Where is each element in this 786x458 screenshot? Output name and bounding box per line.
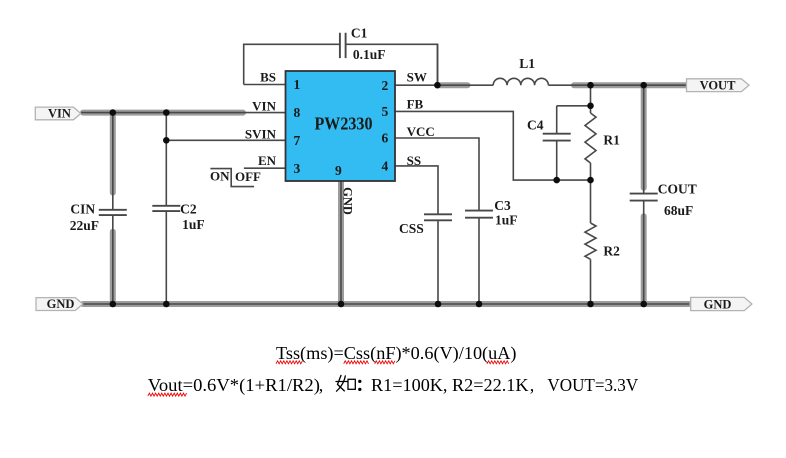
node formula Vout part1 xyxy=(148,375,323,396)
svg-text:EN: EN xyxy=(258,153,277,168)
svg-text:L1: L1 xyxy=(519,56,535,71)
junction GND-C2 xyxy=(163,301,170,308)
node formula colon xyxy=(358,380,361,391)
svg-text:Vout=0.6V*(1+R1/R2): Vout=0.6V*(1+R1/R2) xyxy=(148,375,320,396)
wire SW to C1 stub xyxy=(436,44,438,85)
junction GND-pin9 xyxy=(338,301,345,308)
resistor R1 xyxy=(585,113,620,163)
wire R2 upper lead xyxy=(590,180,592,223)
capacitor COUT 68uF xyxy=(630,181,697,218)
node SS label xyxy=(407,153,421,168)
pin 2 xyxy=(382,78,389,93)
node SVIN label xyxy=(245,126,277,141)
wire C2 lower lead xyxy=(165,211,167,304)
svg-text:SW: SW xyxy=(407,70,427,85)
svg-text:C1: C1 xyxy=(351,25,368,40)
capacitor CSS xyxy=(399,214,452,236)
svg-text:GND: GND xyxy=(341,187,355,215)
wire CIN branch thick trace lower xyxy=(110,232,116,304)
junction GND-CIN xyxy=(110,301,117,308)
junction VIN-CIN xyxy=(110,109,117,116)
capacitor C2 1uF xyxy=(152,201,204,232)
junction SW-C1 xyxy=(434,82,441,89)
wire COUT lower lead xyxy=(643,201,645,304)
svg-text:C2: C2 xyxy=(180,201,197,216)
node SW label xyxy=(407,70,427,85)
node formula Chinese ru glyph xyxy=(336,375,355,391)
op-amp U1 PW2330 regulator IC xyxy=(286,71,396,181)
node spellcheck squiggle Css xyxy=(344,361,369,364)
junction FB-C4 xyxy=(553,177,560,184)
node GND terminal xyxy=(691,297,752,311)
junction GND-C3 xyxy=(476,301,483,308)
svg-text:BS: BS xyxy=(260,70,276,85)
node BS label xyxy=(260,70,276,85)
wire SVIN pin xyxy=(166,139,285,141)
svg-text:GND: GND xyxy=(704,297,732,311)
svg-text:22uF: 22uF xyxy=(70,218,99,233)
svg-text:PW2330: PW2330 xyxy=(315,114,373,134)
wire VCC to C3 xyxy=(395,138,479,211)
wire R1 upper lead xyxy=(590,85,592,113)
wire GND rail xyxy=(81,303,689,305)
wire R1 lower lead xyxy=(590,163,592,180)
svg-text:5: 5 xyxy=(382,104,389,119)
pin 1 xyxy=(294,77,301,92)
svg-text:FB: FB xyxy=(407,96,424,111)
svg-text:VIN: VIN xyxy=(48,107,71,121)
wire C4 top link xyxy=(557,105,591,107)
svg-text:68uF: 68uF xyxy=(664,203,693,218)
wire BS to C1 left xyxy=(244,44,340,84)
svg-text:ON: ON xyxy=(210,169,230,184)
wire VIN net thick trace xyxy=(83,110,243,116)
junction VIN-C2 xyxy=(163,109,170,116)
wire COUT branch thick trace upper xyxy=(641,86,647,188)
pin 9 xyxy=(335,163,342,178)
junction GND-CSS xyxy=(435,301,442,308)
junction VOUT-COUT xyxy=(640,82,647,89)
wire C1 right to SW xyxy=(346,44,438,84)
svg-text:C4: C4 xyxy=(527,117,544,132)
svg-text:CIN: CIN xyxy=(70,201,95,216)
switch ON label xyxy=(210,169,230,184)
svg-text:SVIN: SVIN xyxy=(245,126,277,141)
junction R1-C4 top xyxy=(587,103,594,110)
wire CIN lower lead xyxy=(112,215,114,304)
svg-text:6: 6 xyxy=(382,131,389,146)
node VCC label xyxy=(407,124,435,139)
node VIN terminal xyxy=(35,107,81,121)
svg-text:OFF: OFF xyxy=(235,169,261,184)
node GND terminal xyxy=(36,297,83,311)
svg-text:8: 8 xyxy=(294,105,301,120)
wire CIN branch thick trace upper xyxy=(110,113,116,193)
wire SW thick trace xyxy=(440,82,468,88)
svg-text:SS: SS xyxy=(407,153,421,168)
svg-text:0.1uF: 0.1uF xyxy=(353,47,386,62)
switch OFF label xyxy=(235,169,261,184)
pin 3 xyxy=(294,161,301,176)
node VOUT terminal xyxy=(687,78,750,92)
pin 6 xyxy=(382,131,389,146)
inductor L1 xyxy=(493,56,548,85)
wire C4 upper lead xyxy=(556,106,558,134)
svg-text:1uF: 1uF xyxy=(495,213,518,228)
wire FB net xyxy=(395,111,591,180)
wire CIN upper lead xyxy=(112,113,114,210)
wire R2 lower lead xyxy=(590,259,592,304)
node FB label xyxy=(407,96,424,111)
junction VOUT-R1 xyxy=(587,82,594,89)
wire GND rail thick trace xyxy=(83,301,689,307)
wire VIN rail xyxy=(81,112,286,114)
pin 5 xyxy=(382,104,389,119)
svg-text:3: 3 xyxy=(294,161,301,176)
capacitor CIN 22uF xyxy=(70,201,127,233)
wire BS pin xyxy=(244,84,286,86)
wire GND pin9 xyxy=(340,181,342,304)
node spellcheck squiggle uA xyxy=(487,361,509,364)
svg-text:1: 1 xyxy=(294,77,301,92)
resistor R2 xyxy=(585,223,620,259)
svg-text:R1=100K, R2=22.1K: R1=100K, R2=22.1K xyxy=(371,375,529,395)
svg-text:GND: GND xyxy=(47,297,75,311)
junction SVIN-C2 xyxy=(163,137,170,144)
svg-text:VOUT: VOUT xyxy=(700,78,737,92)
node spellcheck squiggle Tss xyxy=(276,361,302,364)
wire L1 to VOUT xyxy=(548,84,688,86)
svg-text:R2: R2 xyxy=(603,243,620,258)
node spellcheck squiggle nF xyxy=(375,361,395,364)
svg-text:VOUT=3.3V: VOUT=3.3V xyxy=(547,375,638,395)
node formula Tss xyxy=(276,343,517,364)
svg-text:4: 4 xyxy=(382,159,389,174)
svg-text:1uF: 1uF xyxy=(182,217,205,232)
node VIN pin label xyxy=(252,98,276,113)
svg-text:C3: C3 xyxy=(494,198,511,213)
node EN label xyxy=(258,153,277,168)
svg-text:VCC: VCC xyxy=(407,124,435,139)
svg-text:2: 2 xyxy=(382,78,389,93)
svg-text:CSS: CSS xyxy=(399,221,424,236)
capacitor C3 1uF xyxy=(465,198,518,227)
svg-text:,: , xyxy=(319,375,324,395)
wire GND pin9 thick trace xyxy=(338,182,344,304)
pin 8 xyxy=(294,105,301,120)
wire C2 upper lead xyxy=(165,113,167,206)
svg-text:,: , xyxy=(530,375,535,395)
wire EN pin xyxy=(244,167,286,169)
wire COUT branch thick trace lower xyxy=(641,216,647,303)
svg-text:7: 7 xyxy=(294,133,301,148)
junction GND-COUT xyxy=(640,301,647,308)
svg-text:R1: R1 xyxy=(603,133,620,148)
svg-text:9: 9 xyxy=(335,163,342,178)
junction FB-R1/R2 xyxy=(587,177,594,184)
node spellcheck squiggle Vout xyxy=(148,393,187,396)
node GND pin9 label (rotated) xyxy=(341,187,355,215)
wire SS to CSS xyxy=(395,166,438,214)
wire C3 lower lead xyxy=(478,218,480,304)
wire SW pin to L1 xyxy=(395,84,493,86)
wire ON-OFF switch symbol xyxy=(210,169,254,187)
wire C4 lower lead xyxy=(556,141,558,181)
svg-text:VIN: VIN xyxy=(252,98,276,113)
pin 7 xyxy=(294,133,301,148)
capacitor C4 xyxy=(527,117,571,140)
wire VOUT thick trace xyxy=(574,82,688,88)
capacitor C1 xyxy=(340,25,386,61)
wire COUT upper lead xyxy=(643,85,645,193)
svg-text:Tss(ms)=Css(nF)*0.6(V)/10(uA): Tss(ms)=Css(nF)*0.6(V)/10(uA) xyxy=(276,343,517,364)
pin 4 xyxy=(382,159,389,174)
wire CSS lower lead xyxy=(437,220,439,304)
junction GND-R2 xyxy=(587,301,594,308)
node formula Vout part2 xyxy=(371,375,638,395)
svg-text:COUT: COUT xyxy=(658,181,697,196)
